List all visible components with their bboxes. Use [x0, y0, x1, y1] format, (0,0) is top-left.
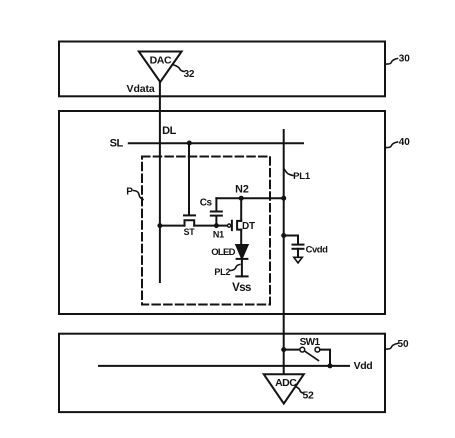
svg-text:SW1: SW1	[300, 337, 321, 348]
svg-text:N2: N2	[235, 183, 249, 195]
leader PL1	[285, 170, 294, 176]
svg-text:SL: SL	[110, 138, 124, 150]
capacitor Cs	[211, 198, 222, 225]
pixel dashed box P	[142, 157, 270, 305]
transistor DT with gate bubble	[216, 198, 241, 245]
node dot PL1/SW1 junction	[281, 347, 286, 352]
leader 32	[173, 65, 185, 72]
leader 52	[296, 387, 304, 394]
wire N2 horizontal	[216, 197, 283, 199]
leader 30	[386, 59, 398, 65]
diode OLED	[236, 245, 247, 276]
transistor ST	[160, 215, 217, 225]
svg-text:Vdd: Vdd	[354, 360, 373, 372]
switch SW1	[284, 347, 330, 366]
svg-text:PL2: PL2	[214, 267, 230, 277]
svg-text:30: 30	[399, 54, 411, 65]
wire gate drop to ST	[188, 143, 190, 214]
svg-text:P: P	[126, 187, 133, 198]
node dot Cvdd/PL1 junction	[281, 233, 286, 238]
node dot SW1/Vdd junction	[328, 363, 333, 368]
svg-text:DT: DT	[242, 221, 255, 232]
block 40 box	[59, 111, 385, 314]
node dot DL/ST junction	[157, 223, 162, 228]
svg-text:Vss: Vss	[232, 282, 251, 294]
node dot SL/gate junction	[187, 141, 192, 146]
block 50 box	[59, 334, 385, 412]
leader PL2	[231, 265, 240, 271]
capacitor Cvdd	[284, 236, 304, 258]
wire Vdd rail	[99, 365, 349, 367]
wire SL horizontal	[129, 142, 303, 144]
ADC U52 triangle	[264, 374, 304, 403]
block 30 box	[59, 42, 385, 97]
node N2 dot	[239, 196, 244, 201]
svg-text:PL1: PL1	[293, 171, 311, 182]
svg-text:40: 40	[399, 137, 411, 148]
leader 40	[386, 142, 398, 148]
svg-text:Cs: Cs	[200, 198, 213, 209]
wire PL1 vertical	[283, 130, 285, 374]
DAC U30 triangle	[139, 52, 182, 83]
leader 50	[386, 344, 398, 350]
svg-text:52: 52	[302, 390, 314, 402]
svg-text:N1: N1	[213, 230, 224, 240]
leader P	[134, 191, 144, 200]
svg-text:ST: ST	[184, 227, 196, 237]
svg-text:OLED: OLED	[211, 247, 235, 258]
node dot N2/PL1 junction	[281, 196, 286, 201]
svg-text:DAC: DAC	[150, 54, 172, 66]
node N1 dot	[214, 223, 219, 228]
svg-text:DL: DL	[162, 125, 177, 137]
svg-text:32: 32	[184, 69, 195, 80]
svg-text:ADC: ADC	[275, 377, 297, 389]
wire Vdata/DL vertical	[159, 82, 161, 282]
svg-text:Cvdd: Cvdd	[306, 245, 328, 256]
svg-text:50: 50	[397, 339, 409, 350]
svg-text:Vdata: Vdata	[127, 83, 155, 95]
ground Cvdd	[294, 257, 303, 263]
